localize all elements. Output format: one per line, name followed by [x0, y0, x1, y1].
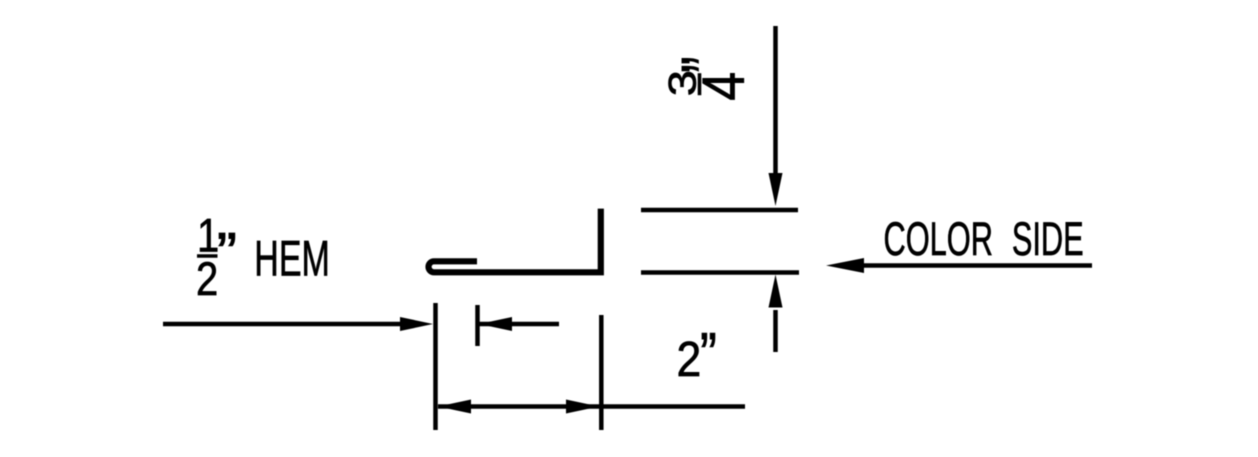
label 3/4" rotated vertical text — [661, 57, 756, 101]
label inch mark of bottom dimension — [700, 321, 717, 388]
svg-text:COLOR SIDE: COLOR SIDE — [884, 213, 1084, 265]
extension line top of 3/4" dimension — [641, 208, 798, 213]
svg-text:”: ” — [217, 222, 237, 285]
extension line right of 2" dimension — [599, 315, 604, 430]
svg-text:2: 2 — [677, 331, 702, 387]
3/4" up arrow — [769, 275, 783, 353]
svg-text:”: ” — [700, 321, 717, 388]
2" dimension line with outward arrows — [438, 400, 745, 414]
label 1/2" HEM fraction bar — [197, 254, 218, 258]
extension tick right of hem dimension — [475, 305, 480, 346]
svg-text:2: 2 — [196, 254, 218, 306]
label 2 of bottom dimension — [677, 331, 702, 387]
label 1/2" HEM inch mark — [217, 222, 237, 285]
label HEM text — [254, 231, 330, 287]
label COLOR SIDE — [884, 213, 1084, 265]
svg-text:4: 4 — [691, 72, 757, 101]
hem width arrow pointing left — [479, 317, 559, 331]
profile: J-trim cross-section with hem, bottom leg and vertical flange — [429, 209, 601, 273]
extension line left of hem dimension — [433, 303, 438, 430]
label 1/2" HEM denominator 2 — [196, 254, 218, 306]
COLOR SIDE arrow pointing left — [826, 258, 1092, 273]
3/4" down arrow — [769, 26, 783, 206]
svg-text:”: ” — [668, 57, 749, 73]
svg-text:HEM: HEM — [254, 231, 330, 287]
extension line bottom of 3/4" dimension — [641, 270, 799, 275]
leader arrow line for 1/2" HEM pointing right — [163, 317, 433, 331]
label 1/2" HEM numerator 1 — [197, 211, 219, 263]
